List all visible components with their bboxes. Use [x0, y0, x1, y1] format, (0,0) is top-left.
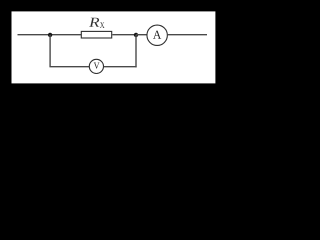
ammeter A	[147, 25, 167, 45]
voltmeter V	[89, 59, 103, 73]
node: right junction dot	[134, 33, 138, 37]
wire: left lead to left junction	[18, 34, 51, 36]
wire: right junction to ammeter	[136, 34, 147, 36]
resistor RX	[81, 31, 111, 38]
wire: ammeter to right lead	[168, 34, 207, 36]
wire: left branch vertical	[49, 35, 51, 67]
node: left junction dot	[48, 33, 52, 37]
wire: right branch vertical	[135, 35, 137, 68]
label RX	[89, 18, 99, 27]
wire: voltmeter to right branch	[104, 66, 137, 68]
wire: resistor to right junction	[112, 34, 136, 36]
wire: left junction to resistor	[50, 34, 81, 36]
wire: bottom left to voltmeter	[49, 66, 89, 68]
